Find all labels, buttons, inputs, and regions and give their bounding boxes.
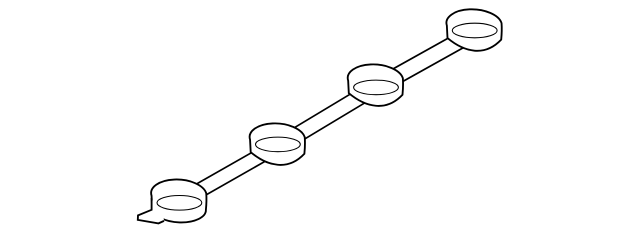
- ring 1 (bottom-left seal) body: outer rim ellipse + side wall: [151, 179, 206, 222]
- connecting strip 2 (ring2-ring3) lower edge: [277, 96, 375, 155]
- ring 2 inner bore rim: [256, 137, 301, 152]
- connecting strip 2 (ring2-ring3) upper edge: [277, 79, 375, 138]
- ring 3 body: outer rim ellipse + side wall: [348, 64, 403, 106]
- mounting tab outline: [138, 198, 164, 223]
- ring 4 (top-right seal) inner bore rim: [452, 23, 497, 38]
- ring 4 (top-right seal) body: outer rim ellipse + side wall: [446, 9, 501, 51]
- connecting strip 1 (ring1-ring2) upper edge: [179, 138, 278, 194]
- connecting strip 3 (ring3-ring4) upper edge: [376, 24, 475, 79]
- ring 3 inner bore rim: [354, 80, 399, 95]
- ring 1 (bottom-left seal) inner bore rim: [157, 196, 202, 211]
- connecting strip 3 (ring3-ring4) lower edge: [376, 42, 475, 97]
- ring 2 body: outer rim ellipse + side wall: [250, 123, 305, 165]
- connecting strip 1 (ring1-ring2) lower edge: [179, 154, 278, 210]
- mounting tab fill (occludes ring1 lower-left wall): [138, 199, 164, 223]
